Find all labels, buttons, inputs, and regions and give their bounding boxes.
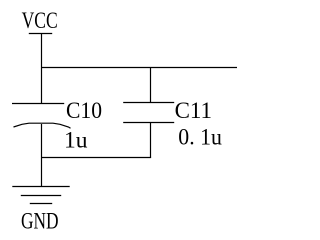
power symbol VCC — [29, 33, 52, 35]
capacitor C11 — [123, 103, 174, 123]
svg-text:VCC: VCC — [22, 8, 58, 33]
capacitor C10 — [12, 104, 71, 129]
wire C11 top lead — [150, 68, 152, 103]
label 1u — [64, 128, 88, 153]
wire top rail — [42, 67, 238, 69]
wire C10 bottom lead — [41, 124, 43, 187]
label 0.1u — [178, 124, 222, 149]
svg-text:C11: C11 — [175, 98, 212, 123]
label VCC — [22, 8, 58, 33]
wire C11 bottom lead — [150, 123, 152, 158]
svg-text:1u: 1u — [64, 128, 88, 153]
label GND — [21, 209, 59, 234]
wire bottom rail — [42, 157, 152, 159]
wire rail junction to C10 — [41, 68, 43, 104]
svg-text:0. 1u: 0. 1u — [178, 124, 222, 149]
svg-text:GND: GND — [21, 209, 59, 234]
svg-text:C10: C10 — [66, 98, 102, 123]
wire VCC bar to rail junction — [41, 34, 43, 68]
label C10 — [66, 98, 102, 123]
label C11 — [175, 98, 212, 123]
ground — [12, 187, 69, 204]
